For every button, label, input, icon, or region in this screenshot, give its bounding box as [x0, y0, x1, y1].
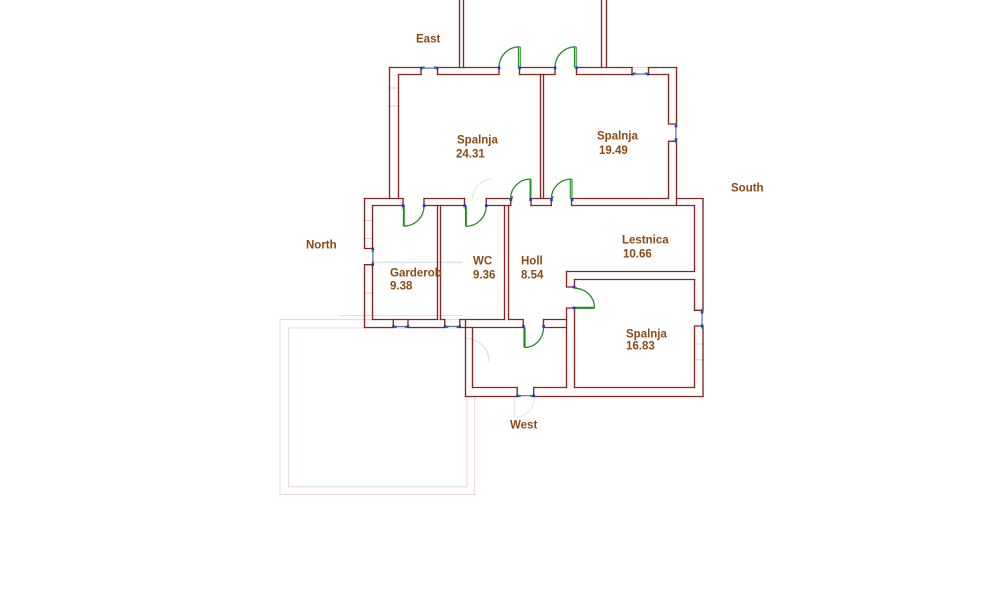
- ghost tick left wall lower 3: [363, 292, 373, 294]
- wall H1 top inner edge: [399, 74, 669, 76]
- window W3 jamb markers: [675, 125, 678, 128]
- ghost door leaf below window W6: [514, 398, 516, 418]
- ghost terrace inner rectangle: [289, 328, 467, 487]
- ghost line across Garderob: [373, 261, 462, 263]
- ghost tick left wall upper 1: [389, 87, 400, 89]
- svg-text:24.31: 24.31: [456, 149, 485, 161]
- wall H5 jamb caps: [517, 388, 534, 397]
- door A arc: [511, 179, 531, 199]
- door D2 arc: [555, 47, 576, 68]
- ghost tick left wall lower 1: [363, 220, 373, 222]
- window W7 jamb markers: [372, 248, 375, 251]
- ghost line above bottom wall: [340, 315, 462, 317]
- window W1 glazing: [421, 67, 438, 69]
- wall H2 middle inner edge: [373, 205, 695, 207]
- ghost door arc below window W6: [515, 398, 535, 418]
- door D1 jamb markers: [498, 67, 501, 70]
- stub wall S2: [602, 0, 607, 68]
- svg-text:Garderob: Garderob: [390, 268, 442, 280]
- svg-text:Lestnica: Lestnica: [622, 235, 669, 247]
- wall V11 right exterior: [695, 199, 704, 397]
- window W8 jamb markers: [701, 311, 704, 314]
- wall V9 WC 7.9 left: [466, 320, 473, 397]
- door D4 jamb markers: [463, 204, 466, 207]
- wall V8 partition WC-Holl: [505, 206, 509, 320]
- door D3 arc: [404, 206, 424, 227]
- window W6 glazing: [517, 395, 534, 397]
- svg-text:West: West: [510, 420, 537, 432]
- door D3 leaf: [403, 206, 405, 227]
- door D5 leaf: [523, 328, 525, 348]
- wall V10 vestibule Spalnja 16.83 left: [567, 272, 575, 388]
- door D6 jamb markers: [573, 286, 576, 289]
- window W4 jamb markers: [392, 325, 395, 328]
- door D2 jamb markers: [554, 67, 557, 70]
- svg-text:Spalnja: Spalnja: [457, 135, 499, 147]
- wall V4 partition between bedrooms: [541, 75, 544, 199]
- svg-text:Spalnja: Spalnja: [597, 131, 639, 143]
- door B jamb markers: [550, 198, 553, 201]
- wall H1 top outer edge: [390, 67, 677, 69]
- ghost door arc in WC 7.9: [466, 339, 489, 362]
- stub wall S1: [460, 0, 464, 68]
- ghost tick right wall 1: [694, 343, 705, 345]
- window W5 glazing: [445, 325, 460, 327]
- window W2 glazing: [632, 73, 649, 75]
- door D3 jamb markers: [402, 204, 405, 207]
- door D4 arc: [466, 206, 486, 227]
- ghost tick left wall upper 2: [389, 105, 400, 107]
- wall H5 bottom exterior upper edge: [473, 387, 695, 389]
- window W6 jamb markers: [516, 394, 519, 397]
- ghost tick right wall 2: [694, 359, 705, 361]
- door D5 jamb markers: [522, 325, 525, 328]
- svg-text:19.49: 19.49: [599, 145, 628, 157]
- wall V7 partition Garderob-WC: [438, 206, 441, 320]
- door B arc: [551, 179, 571, 199]
- svg-text:South: South: [731, 183, 764, 195]
- door B leaf: [570, 179, 572, 199]
- svg-text:North: North: [306, 240, 337, 252]
- door D5 arc: [525, 328, 544, 348]
- door D1 arc: [499, 47, 520, 68]
- wall H1 jamb caps: [421, 68, 649, 75]
- svg-text:8.54: 8.54: [521, 270, 544, 282]
- window W1 jamb markers: [420, 67, 423, 70]
- ghost tick left wall lower 2: [363, 238, 373, 240]
- wall V5 upper-right exterior: [669, 68, 677, 206]
- ghost door arc near Holl door A: [473, 179, 493, 199]
- wall H5 bottom exterior lower edge: [466, 396, 704, 398]
- svg-text:16.83: 16.83: [626, 341, 655, 353]
- svg-text:WC: WC: [473, 256, 492, 268]
- wall V6 lower-left exterior: [365, 199, 373, 328]
- svg-text:Holl: Holl: [521, 256, 543, 268]
- door D6 arc: [575, 288, 595, 308]
- wall H3 Lestnica bottom: [567, 272, 695, 280]
- window W7 glazing: [372, 249, 374, 264]
- wall H2 middle outer edge: [365, 198, 704, 200]
- wall H4 bottom of left block upper edge: [373, 319, 567, 321]
- wall V1 upper-left exterior: [390, 68, 399, 199]
- svg-text:10.66: 10.66: [623, 249, 652, 261]
- door D4 leaf: [465, 206, 467, 227]
- window W3 glazing: [675, 125, 677, 142]
- window W5 jamb markers: [444, 325, 447, 328]
- svg-text:9.36: 9.36: [473, 270, 495, 282]
- ghost terrace outer rectangle: [280, 320, 475, 495]
- window W2 jamb markers: [631, 73, 634, 76]
- wall H4 bottom of left block lower edge: [365, 327, 567, 329]
- ghost faint line over window W2: [632, 66, 649, 68]
- door D2 leaf: [575, 47, 577, 68]
- door A leaf: [530, 179, 532, 199]
- svg-text:Spalnja: Spalnja: [626, 329, 668, 341]
- wall H2 jamb caps: [403, 199, 572, 206]
- door A jamb markers: [510, 198, 513, 201]
- door D6 leaf: [575, 307, 595, 309]
- door D1 leaf: [518, 47, 520, 68]
- svg-text:9.38: 9.38: [390, 281, 413, 293]
- svg-text:East: East: [416, 34, 440, 46]
- window W8 glazing: [701, 311, 703, 326]
- wall H4 jamb caps: [393, 320, 543, 328]
- window W4 glazing: [393, 326, 408, 328]
